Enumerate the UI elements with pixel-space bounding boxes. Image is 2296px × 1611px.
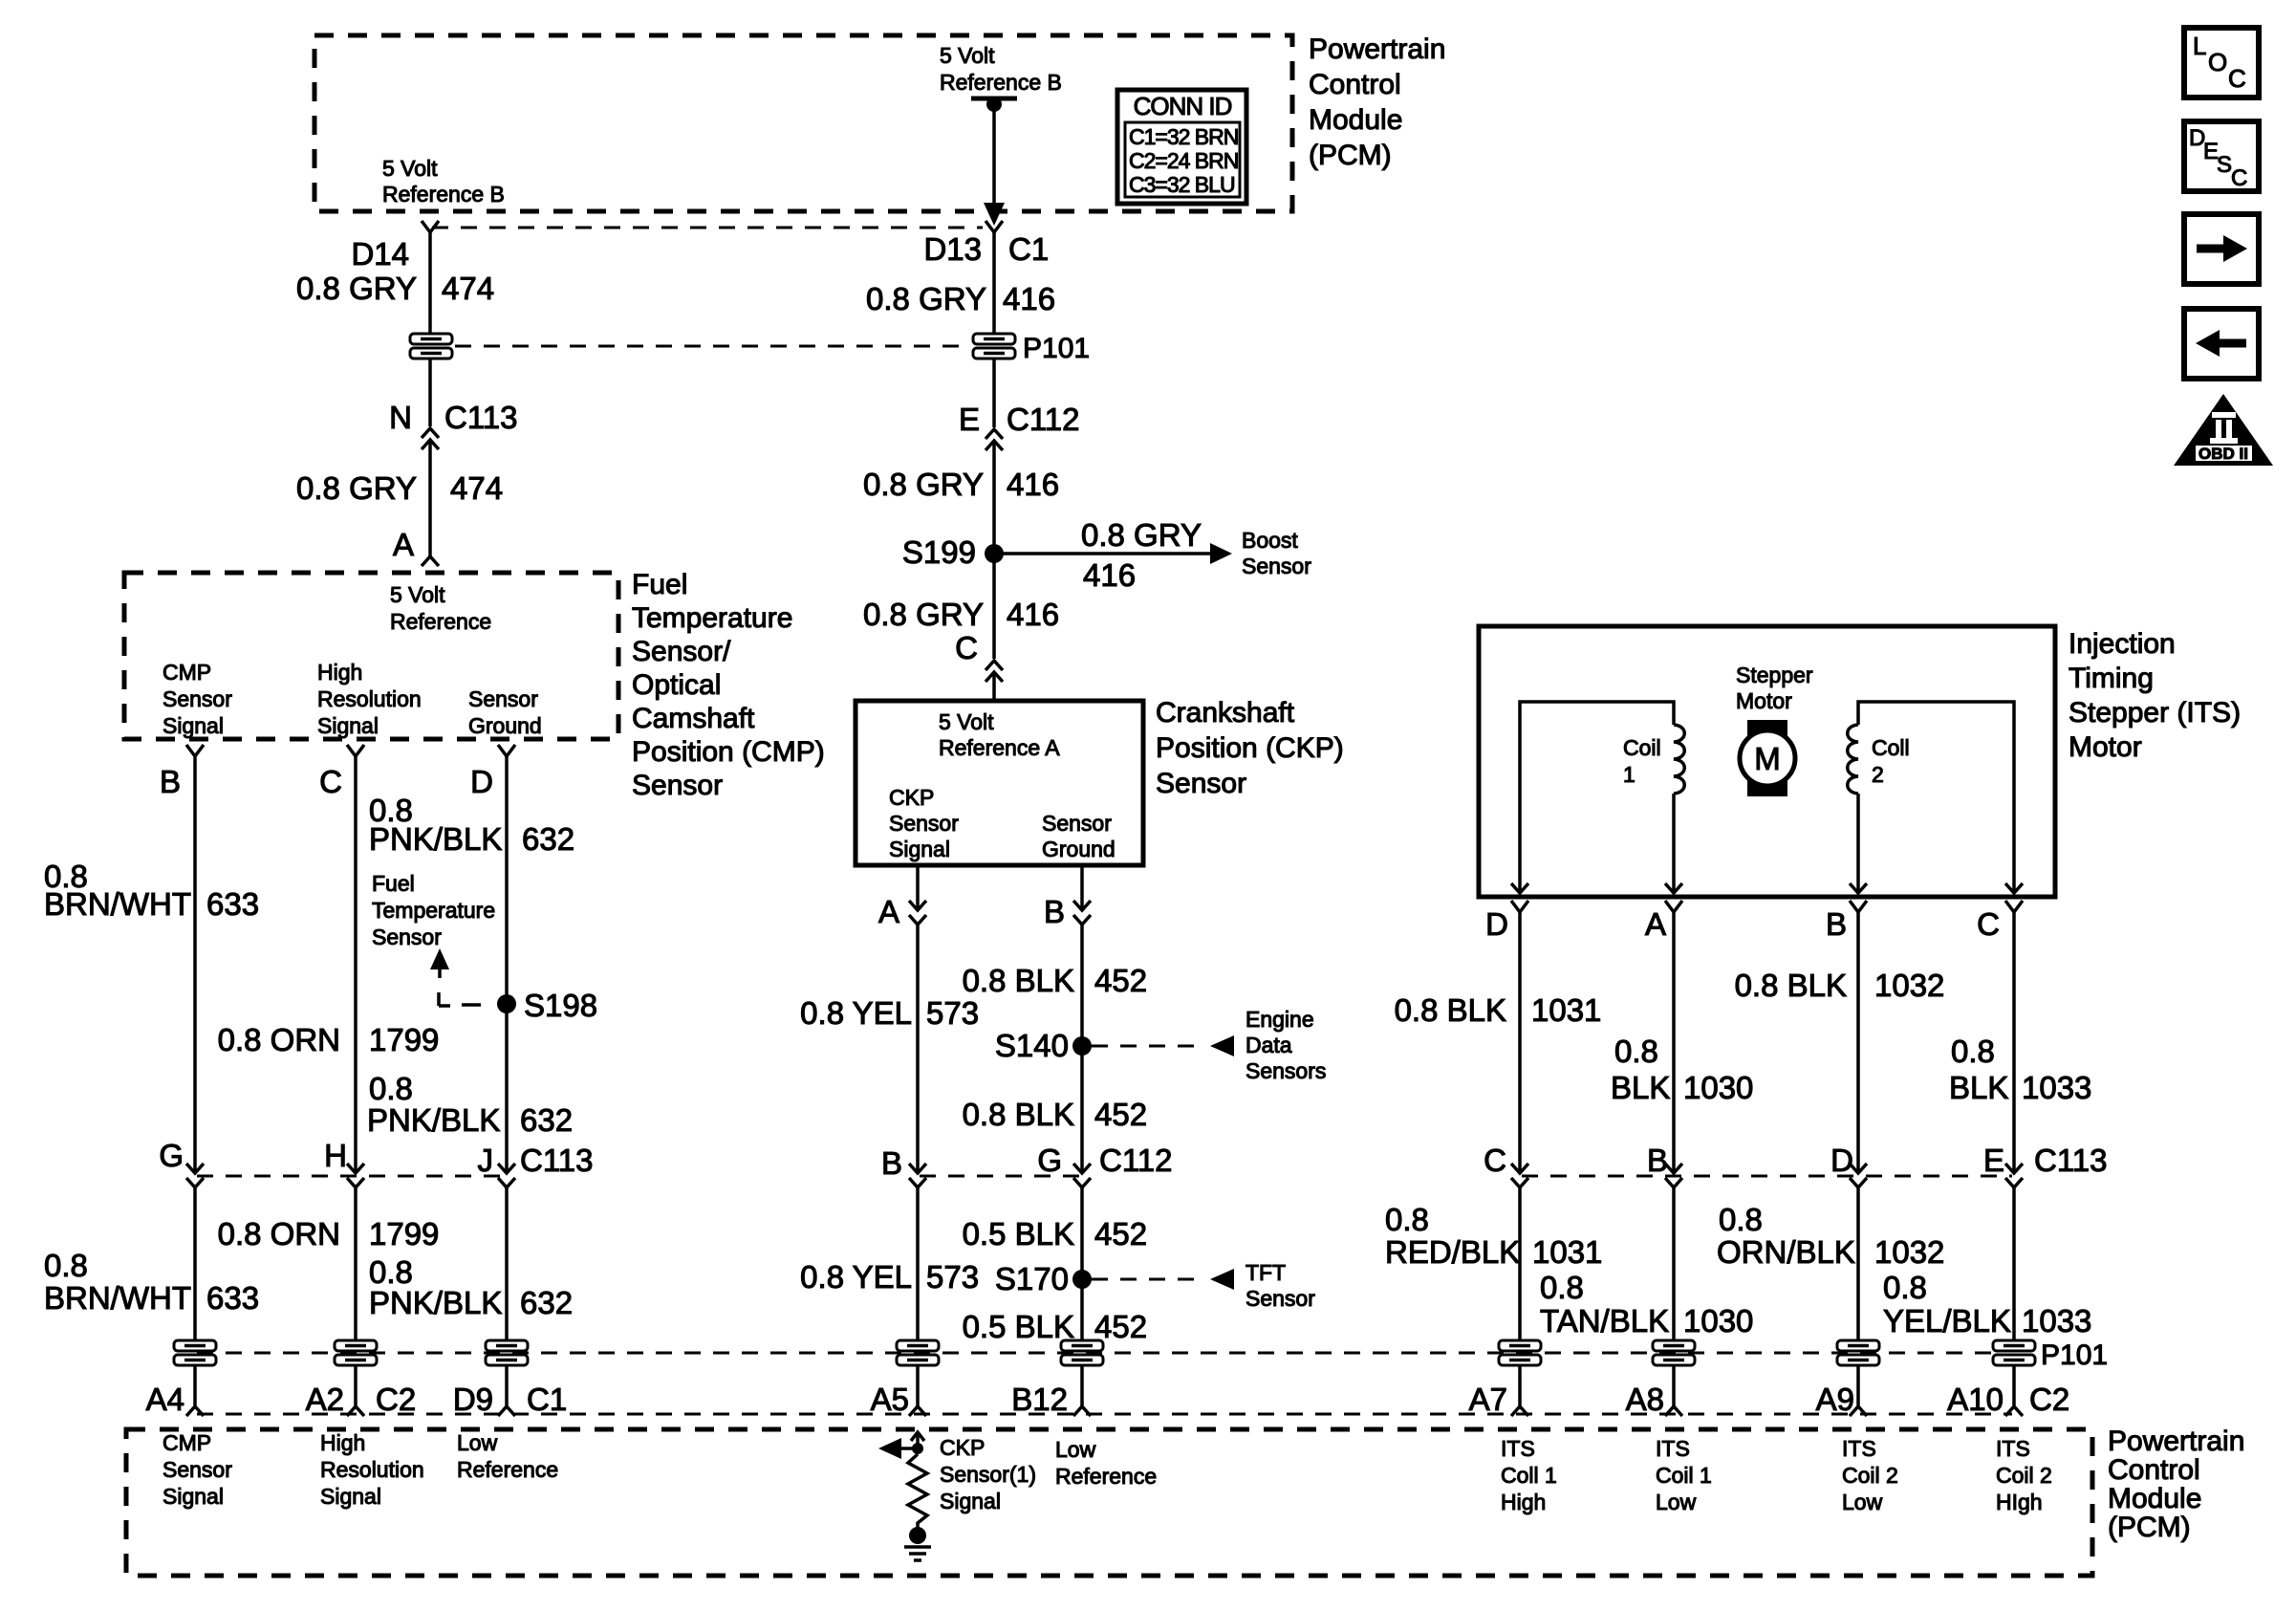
svg-text:0.8 ORN: 0.8 ORN bbox=[218, 1216, 340, 1252]
svg-text:Sensor: Sensor bbox=[468, 686, 538, 711]
label: J | C113 bbox=[478, 1143, 594, 1178]
node: CMP pin B fork bbox=[186, 745, 204, 756]
svg-text:5 Volt: 5 Volt bbox=[390, 582, 445, 607]
label: 0.8 BLK | 1030 bbox=[1611, 1034, 1753, 1105]
svg-text:C: C bbox=[2231, 165, 2247, 191]
svg-text:CONN ID: CONN ID bbox=[1134, 92, 1232, 120]
label: Coil 1 bbox=[1623, 735, 1661, 787]
svg-text:B: B bbox=[1647, 1143, 1668, 1178]
svg-text:Sensor: Sensor bbox=[889, 811, 959, 836]
wire: 0.8 GRY 474 from D14 to P101 bbox=[428, 232, 432, 335]
svg-text:G: G bbox=[1037, 1143, 1062, 1178]
icon: left arrow box bbox=[2184, 309, 2259, 379]
label: S140 bbox=[995, 1028, 1069, 1063]
svg-text:5 Volt: 5 Volt bbox=[382, 156, 438, 181]
label: P101 (top) bbox=[1023, 333, 1090, 364]
svg-text:RED/BLK: RED/BLK bbox=[1385, 1234, 1520, 1270]
svg-text:Powertrain: Powertrain bbox=[2108, 1426, 2244, 1457]
node: pin A5 fork into PCM bbox=[909, 1406, 926, 1416]
label: S170 bbox=[995, 1261, 1069, 1296]
svg-text:Position (CKP): Position (CKP) bbox=[1156, 732, 1344, 764]
svg-text:CKP: CKP bbox=[889, 785, 934, 810]
connector P101 pass-through on BRN/WHT 633 bbox=[172, 1339, 218, 1366]
svg-text:Fuel: Fuel bbox=[632, 569, 687, 600]
label: A2 | C2 bbox=[306, 1382, 417, 1417]
label: A5 bbox=[871, 1382, 909, 1417]
svg-text:0.8 BLK: 0.8 BLK bbox=[963, 963, 1074, 998]
svg-text:D13: D13 bbox=[923, 231, 982, 267]
svg-text:Sensor(1): Sensor(1) bbox=[940, 1462, 1036, 1487]
wire: thin dashed line at C113 row (right group) bbox=[1522, 1175, 2012, 1178]
svg-text:0.8 YEL: 0.8 YEL bbox=[800, 995, 912, 1031]
label: 0.8 GRY (boost branch) bbox=[1081, 517, 1202, 553]
svg-text:Module: Module bbox=[1309, 104, 1402, 136]
svg-text:J: J bbox=[478, 1143, 494, 1178]
node: pin A2 fork into PCM bbox=[347, 1406, 364, 1416]
svg-text:C3=32 BLU: C3=32 BLU bbox=[1129, 172, 1235, 197]
svg-text:0.8 GRY: 0.8 GRY bbox=[296, 271, 417, 306]
label: ITS Coil 1 High (PCM pin A7) bbox=[1501, 1436, 1557, 1514]
svg-text:Motor: Motor bbox=[1736, 688, 1792, 713]
svg-text:M: M bbox=[1754, 741, 1781, 776]
connector P101 pass-through on ORN 1799 bbox=[333, 1339, 379, 1366]
svg-text:1799: 1799 bbox=[369, 1216, 439, 1252]
svg-text:D9: D9 bbox=[453, 1382, 493, 1417]
svg-text:1033: 1033 bbox=[2022, 1070, 2091, 1105]
svg-text:Low: Low bbox=[1055, 1437, 1096, 1462]
svg-text:0.8 YEL: 0.8 YEL bbox=[800, 1259, 912, 1295]
wire: GRY 416 from P101 to C112 pin E bbox=[992, 358, 996, 427]
wire: dashed stub from fuel temp sensor to S198 bbox=[439, 992, 481, 1006]
label: CMP Sensor Signal (PCM pin A4) bbox=[162, 1430, 232, 1509]
svg-text:C112: C112 bbox=[1099, 1143, 1172, 1178]
svg-text:Boost: Boost bbox=[1242, 528, 1298, 553]
svg-text:S198: S198 bbox=[524, 988, 597, 1023]
svg-text:A: A bbox=[878, 894, 899, 929]
svg-text:C: C bbox=[955, 630, 978, 665]
node: in-line chevrons above CKP sensor bbox=[986, 661, 1003, 682]
svg-text:0.8: 0.8 bbox=[1614, 1034, 1658, 1069]
wire: 0.8 PNK/BLK 632 from S198 to C113 J bbox=[505, 1004, 509, 1173]
ITS motor box (Injection Timing Stepper) bbox=[1479, 626, 2055, 897]
svg-text:BRN/WHT: BRN/WHT bbox=[44, 1280, 191, 1316]
svg-text:Sensor: Sensor bbox=[632, 770, 723, 801]
svg-text:Coil 2: Coil 2 bbox=[1842, 1463, 1898, 1488]
node: in-line connector C113-N chevrons bbox=[422, 428, 439, 449]
node: splice S170 bbox=[1072, 1270, 1092, 1289]
wire: 0.8 BRN/WHT 633 from CMP B to C113 G bbox=[193, 756, 197, 1173]
wire: 0.8 BLK 452 from CKP B to splice S140 bbox=[1080, 925, 1084, 1046]
svg-text:Sensor: Sensor bbox=[162, 1457, 232, 1482]
CMP / Fuel Temperature sensor dashed box bbox=[124, 573, 618, 739]
node: pin A7 fork into PCM bbox=[1511, 1406, 1528, 1416]
svg-text:632: 632 bbox=[520, 1285, 573, 1320]
wire: 0.8 ORN 1799 from CMP C to C113 H bbox=[354, 756, 357, 1173]
label: CKP Sensor(1) Signal (PCM pin A5) bbox=[940, 1435, 1036, 1513]
svg-text:Low: Low bbox=[457, 1430, 498, 1455]
svg-text:C: C bbox=[319, 764, 342, 799]
svg-text:A: A bbox=[393, 527, 414, 562]
svg-text:0.8 ORN: 0.8 ORN bbox=[218, 1022, 340, 1057]
svg-text:C1: C1 bbox=[1008, 231, 1049, 267]
svg-text:Timing: Timing bbox=[2069, 663, 2154, 694]
svg-text:ITS: ITS bbox=[1996, 1436, 2030, 1461]
label: E | C113 bbox=[1983, 1143, 2107, 1178]
svg-text:Coll: Coll bbox=[1872, 735, 1910, 760]
label: TFT Sensor bbox=[1245, 1260, 1315, 1311]
label: D13 | C1 bbox=[923, 231, 1049, 267]
svg-text:N: N bbox=[389, 400, 412, 435]
label: Boost Sensor bbox=[1242, 528, 1311, 578]
svg-text:ORN/BLK: ORN/BLK bbox=[1717, 1234, 1855, 1270]
wire: thin dashed line at C113 row (left group) bbox=[197, 1175, 505, 1178]
svg-text:452: 452 bbox=[1094, 1309, 1147, 1344]
svg-text:(PCM): (PCM) bbox=[2108, 1512, 2191, 1543]
wire: thin dashed line between P101 connectors bbox=[455, 345, 969, 348]
node: in-line connector C112-E chevrons bbox=[986, 429, 1003, 450]
svg-text:Reference: Reference bbox=[1055, 1464, 1157, 1489]
label: 0.8 GRY | 474 (upper) bbox=[296, 271, 494, 306]
node: ITS pin D fork bbox=[1511, 901, 1528, 912]
svg-text:Coll 1: Coll 1 bbox=[1501, 1463, 1557, 1488]
label: CKP Sensor Signal (inside CKP box) bbox=[889, 785, 959, 861]
label: pin C bbox=[319, 764, 342, 799]
node: fuel temp sensor arrow (points up) bbox=[430, 948, 449, 978]
svg-text:632: 632 bbox=[522, 821, 574, 857]
label: 0.8 GRY | 416 (above S199) bbox=[863, 467, 1059, 502]
label: pin C of CKP sensor bbox=[955, 630, 978, 665]
node: in-line connector C113-E arrow and fork bbox=[2005, 1164, 2023, 1187]
label: Fuel Temperature Sensor / Optical Camshaft Position (CMP) Sensor bbox=[632, 569, 825, 801]
svg-text:1031: 1031 bbox=[1532, 1234, 1602, 1270]
CKP sensor box (Crankshaft Position) bbox=[856, 701, 1143, 865]
svg-text:C2: C2 bbox=[2029, 1382, 2069, 1417]
svg-text:Coil: Coil bbox=[1623, 735, 1661, 760]
svg-text:Ground: Ground bbox=[1042, 837, 1116, 861]
svg-text:Signal: Signal bbox=[889, 837, 950, 861]
label: pin A of CKP bbox=[878, 894, 899, 929]
label: pin B of ITS bbox=[1826, 906, 1847, 942]
label: pin C of ITS bbox=[1977, 906, 2000, 942]
svg-text:Ground: Ground bbox=[468, 713, 542, 738]
node: pin A fork into CMP sensor box bbox=[422, 556, 439, 566]
label: A4 bbox=[146, 1382, 184, 1417]
svg-text:474: 474 bbox=[442, 271, 494, 306]
svg-text:1033: 1033 bbox=[2022, 1303, 2091, 1339]
wire: thin dashed line at C112 row (middle group) bbox=[920, 1175, 1090, 1178]
label: S198 bbox=[524, 988, 597, 1023]
svg-text:Control: Control bbox=[1309, 69, 1401, 100]
coil 1 winding loop bbox=[1511, 702, 1684, 893]
label: pin B of CKP bbox=[1044, 894, 1065, 929]
svg-text:HIgh: HIgh bbox=[1996, 1490, 2043, 1514]
node: pin D9 fork into PCM bbox=[498, 1406, 515, 1416]
svg-text:Data: Data bbox=[1245, 1033, 1292, 1057]
wire: TAN/BLK 1030 from P101 to PCM A8 bbox=[1672, 1364, 1676, 1406]
node: ITS pin A fork bbox=[1665, 901, 1682, 912]
wire: 0.8 BLK 1033 from ITS C to C113 E bbox=[2012, 912, 2016, 1173]
svg-text:C112: C112 bbox=[1007, 402, 1079, 437]
node: CKP signal arrow up inside PCM bbox=[911, 1432, 924, 1448]
ground: CKP signal ground dot and symbol bbox=[904, 1527, 931, 1560]
svg-text:1: 1 bbox=[1623, 762, 1635, 787]
svg-text:416: 416 bbox=[1007, 467, 1059, 502]
wire: GRY 474 from P101 to C113 pin N bbox=[428, 358, 432, 426]
node: pin B12 fork into PCM bbox=[1073, 1406, 1091, 1416]
node: pin A9 fork into PCM bbox=[1850, 1406, 1867, 1416]
connector P101 pass-through on BLK 452 bbox=[1059, 1339, 1105, 1366]
svg-text:633: 633 bbox=[206, 1280, 259, 1316]
label: 0.8 ORN/BLK | 1032 bbox=[1717, 1202, 1944, 1270]
svg-text:Signal: Signal bbox=[162, 713, 224, 738]
svg-text:Sensor: Sensor bbox=[1245, 1286, 1315, 1311]
label: 0.8 YEL | 573 (upper) bbox=[800, 995, 979, 1031]
svg-text:0.8: 0.8 bbox=[1540, 1270, 1584, 1305]
svg-text:Sensors: Sensors bbox=[1245, 1058, 1326, 1083]
label: High Resolution Signal (inside CMP box) bbox=[317, 660, 422, 738]
svg-text:(PCM): (PCM) bbox=[1309, 140, 1392, 171]
node: ITS pin C fork bbox=[2005, 901, 2023, 912]
wire: 0.8 BLK 1031 from ITS D to C113 C bbox=[1518, 912, 1522, 1173]
svg-text:BLK: BLK bbox=[1949, 1070, 2008, 1105]
label: E | C112 bbox=[959, 402, 1079, 437]
connector P101 pass-through on RED/BLK 1031 bbox=[1497, 1339, 1543, 1366]
label: pin B at C113 bbox=[1647, 1143, 1668, 1178]
svg-text:Position (CMP): Position (CMP) bbox=[632, 736, 825, 768]
node: in-line connector C112-B arrow and fork bbox=[909, 1164, 926, 1187]
svg-text:Injection: Injection bbox=[2069, 628, 2176, 660]
svg-text:BLK: BLK bbox=[1611, 1070, 1670, 1105]
svg-text:Fuel: Fuel bbox=[372, 871, 415, 896]
label: S199 bbox=[902, 534, 976, 570]
svg-text:Stepper (ITS): Stepper (ITS) bbox=[2069, 697, 2241, 729]
svg-text:C: C bbox=[1977, 906, 2000, 942]
label: Powertrain Control Module (PCM) bottom bbox=[2108, 1426, 2244, 1543]
svg-text:573: 573 bbox=[926, 995, 979, 1031]
node: in-line connector C113-G arrow and fork bbox=[186, 1164, 204, 1187]
wire: thin dashed PCM connector face line (bottom pin row) bbox=[197, 1413, 2012, 1416]
label: D9 | C1 bbox=[453, 1382, 567, 1417]
wire: 0.8 BLK 1032 from ITS B to C113 D bbox=[1856, 912, 1860, 1173]
svg-text:Crankshaft: Crankshaft bbox=[1156, 697, 1295, 729]
wire: YEL/BLK 1033 from P101 to PCM A10 bbox=[2012, 1364, 2016, 1406]
svg-text:474: 474 bbox=[450, 470, 503, 506]
svg-text:0.8: 0.8 bbox=[1883, 1270, 1927, 1305]
label: pin B bbox=[160, 764, 181, 799]
label: 5 Volt Reference A (inside CKP box) bbox=[939, 709, 1060, 760]
label: pin D bbox=[470, 764, 493, 799]
svg-text:Camshaft: Camshaft bbox=[632, 703, 755, 734]
wire: PNK/BLK 632 from P101 to PCM D9 bbox=[505, 1364, 509, 1406]
svg-text:Signal: Signal bbox=[317, 713, 379, 738]
node: junction dot on CKP signal branch bbox=[912, 1443, 923, 1454]
svg-text:High: High bbox=[320, 1430, 365, 1455]
label: B12 bbox=[1011, 1382, 1068, 1417]
wire: 0.8 ORN 1799 from C113 H to P101 bbox=[354, 1187, 357, 1341]
node: in-line connector C113-C arrow and fork bbox=[1511, 1164, 1528, 1187]
svg-text:P101: P101 bbox=[1023, 333, 1090, 364]
icon: DESC box bbox=[2184, 121, 2259, 191]
svg-text:O: O bbox=[2208, 48, 2227, 76]
svg-text:632: 632 bbox=[520, 1102, 573, 1138]
label: 0.8 PNK/BLK | 632 (lower) bbox=[369, 1254, 573, 1320]
label: pin H bbox=[324, 1138, 347, 1173]
svg-text:1031: 1031 bbox=[1531, 992, 1601, 1028]
svg-text:0.8 GRY: 0.8 GRY bbox=[863, 597, 984, 632]
wire: BRN/WHT 633 from P101 to PCM A4 bbox=[193, 1364, 197, 1406]
svg-text:416: 416 bbox=[1003, 281, 1055, 316]
wire: 0.8 ORN/BLK 1032 from C113 D to P101 bbox=[1856, 1187, 1860, 1341]
wire: 0.8 GRY 416 from S199 to CKP pin C bbox=[992, 554, 996, 659]
wire: dashed branch from S170 to TFT Sensor bbox=[1092, 1269, 1234, 1290]
wire: 0.8 GRY 416 branch to Boost Sensor with arrow bbox=[994, 543, 1232, 564]
label: Engine Data Sensors bbox=[1245, 1007, 1326, 1083]
svg-text:Optical: Optical bbox=[632, 669, 721, 701]
svg-text:Sensor/: Sensor/ bbox=[632, 636, 731, 667]
svg-text:C2: C2 bbox=[376, 1382, 416, 1417]
svg-text:5 Volt: 5 Volt bbox=[940, 43, 995, 68]
svg-text:C1=32 BRN: C1=32 BRN bbox=[1129, 124, 1238, 149]
svg-text:Engine: Engine bbox=[1245, 1007, 1314, 1032]
label: 0.8 YEL/BLK | 1033 bbox=[1883, 1270, 2091, 1339]
svg-text:416: 416 bbox=[1083, 557, 1136, 593]
node: CMP pin D fork bbox=[498, 745, 515, 756]
wire: RED/BLK 1031 from P101 to PCM A7 bbox=[1518, 1364, 1522, 1406]
svg-text:1030: 1030 bbox=[1683, 1070, 1753, 1105]
wire: 0.8 TAN/BLK 1030 from C113 B to P101 bbox=[1672, 1187, 1676, 1341]
svg-text:B: B bbox=[1044, 894, 1065, 929]
svg-text:Reference B: Reference B bbox=[940, 70, 1062, 95]
label: Sensor Ground (inside CMP box) bbox=[468, 686, 542, 738]
svg-text:A8: A8 bbox=[1626, 1382, 1664, 1417]
icon: LOC box bbox=[2184, 28, 2259, 98]
svg-text:A10: A10 bbox=[1947, 1382, 2004, 1417]
svg-text:A5: A5 bbox=[871, 1382, 909, 1417]
svg-text:D: D bbox=[470, 764, 493, 799]
svg-text:S199: S199 bbox=[902, 534, 976, 570]
label: pin A of CMP sensor bbox=[393, 527, 414, 562]
svg-text:Motor: Motor bbox=[2069, 731, 2142, 763]
svg-text:5 Volt: 5 Volt bbox=[939, 709, 994, 734]
node: pin D14 fork at PCM C1 connector bbox=[422, 221, 439, 232]
svg-text:G: G bbox=[159, 1138, 184, 1173]
connector P101 pass-through on GRY 474 bbox=[408, 333, 454, 359]
wire: 0.8 GRY 474 from C113 to CMP sensor pin A bbox=[428, 440, 432, 556]
svg-text:L: L bbox=[2193, 32, 2206, 60]
label: pin G bbox=[159, 1138, 184, 1173]
label: 0.8 BLK | 1032 bbox=[1735, 968, 1945, 1003]
wire: 0.8 GRY 416 from C112 to splice S199 bbox=[992, 441, 996, 554]
svg-text:B: B bbox=[1826, 906, 1847, 942]
node: pin D13 fork at PCM C1 connector bbox=[986, 221, 1003, 232]
node: ITS pin B fork bbox=[1850, 901, 1867, 912]
svg-text:0.8: 0.8 bbox=[369, 1071, 413, 1106]
svg-text:0.8 GRY: 0.8 GRY bbox=[866, 281, 986, 316]
svg-text:0.5 BLK: 0.5 BLK bbox=[963, 1309, 1074, 1344]
svg-text:Resolution: Resolution bbox=[317, 686, 422, 711]
connector P101 pass-through on TAN/BLK 1030 bbox=[1651, 1339, 1697, 1366]
label: 0.8 TAN/BLK | 1030 bbox=[1540, 1270, 1753, 1339]
label: 0.8 PNK/BLK | 632 (top) bbox=[369, 793, 574, 857]
svg-text:ITS: ITS bbox=[1656, 1436, 1690, 1461]
label: 5 Volt Reference B (left, inside top PCM box) bbox=[382, 156, 505, 207]
wire: CKP pin A stub with connector arrows bbox=[909, 865, 926, 925]
node: pin A8 fork into PCM bbox=[1665, 1406, 1682, 1416]
label: Coll 2 bbox=[1872, 735, 1910, 787]
wire: 0.8 BRN/WHT 633 from C113 G to P101 bbox=[193, 1187, 197, 1341]
svg-text:Low: Low bbox=[1656, 1490, 1697, 1514]
svg-text:C2=24 BRN: C2=24 BRN bbox=[1129, 148, 1238, 173]
label: Sensor Ground (inside CKP box) bbox=[1042, 811, 1116, 861]
label: 0.5 BLK | 452 (above S170) bbox=[963, 1216, 1147, 1252]
svg-text:0.8: 0.8 bbox=[1951, 1034, 1995, 1069]
label: A10 | C2 bbox=[1947, 1382, 2069, 1417]
label: A7 bbox=[1469, 1382, 1507, 1417]
node: pin A4 fork into PCM bbox=[186, 1406, 204, 1416]
label: 0.8 GRY | 416 (above P101) bbox=[866, 281, 1055, 316]
wire: branch left with arrow inside PCM bbox=[878, 1438, 918, 1459]
svg-text:Sensor: Sensor bbox=[1156, 768, 1246, 799]
wire: 0.8 YEL 573 from C112 B to P101 bbox=[916, 1187, 920, 1341]
connector P101 pass-through on GRY 416 bbox=[971, 333, 1017, 359]
label: P101 (bottom) bbox=[2041, 1339, 2108, 1371]
wire: ORN 1799 from P101 to PCM A2 bbox=[354, 1364, 357, 1406]
svg-text:B12: B12 bbox=[1011, 1382, 1068, 1417]
svg-text:Reference B: Reference B bbox=[382, 182, 505, 207]
wire: 0.8 GRY 416 from D13 to P101 bbox=[992, 232, 996, 335]
label: ITS Coil 2 High (PCM pin A10) bbox=[1996, 1436, 2052, 1514]
svg-text:YEL/BLK: YEL/BLK bbox=[1883, 1303, 2011, 1339]
svg-text:573: 573 bbox=[926, 1259, 979, 1295]
svg-text:633: 633 bbox=[206, 886, 259, 922]
wire: 5V ref B drop inside top PCM box with arrow bbox=[984, 106, 1005, 226]
label: pin D of ITS bbox=[1485, 906, 1508, 942]
svg-text:Reference A: Reference A bbox=[939, 735, 1060, 760]
wire: dashed branch from S140 to Engine Data Sensors bbox=[1092, 1035, 1234, 1056]
svg-text:D: D bbox=[1485, 906, 1508, 942]
svg-text:Sensor: Sensor bbox=[372, 925, 442, 949]
svg-text:A: A bbox=[1645, 906, 1666, 942]
svg-text:C: C bbox=[1484, 1143, 1506, 1178]
svg-text:ITS: ITS bbox=[1501, 1436, 1535, 1461]
wire: YEL 573 from P101 to PCM A5 bbox=[916, 1364, 920, 1406]
node: splice S140 bbox=[1072, 1036, 1092, 1056]
svg-text:Low: Low bbox=[1842, 1490, 1883, 1514]
svg-text:A2: A2 bbox=[306, 1382, 344, 1417]
svg-text:P101: P101 bbox=[2041, 1339, 2108, 1371]
svg-text:Signal: Signal bbox=[320, 1484, 381, 1509]
svg-text:0.8 BLK: 0.8 BLK bbox=[963, 1097, 1074, 1132]
svg-text:Signal: Signal bbox=[940, 1489, 1001, 1513]
svg-text:0.8 GRY: 0.8 GRY bbox=[296, 470, 417, 506]
label: Low Reference (PCM pin B12) bbox=[1055, 1437, 1157, 1489]
node: in-line connector C113-B arrow and fork bbox=[1665, 1164, 1682, 1187]
label: Fuel Temperature Sensor note bbox=[372, 871, 495, 949]
svg-text:0.8 BLK: 0.8 BLK bbox=[1735, 968, 1847, 1003]
label: CMP Sensor Signal (inside CMP box) bbox=[162, 660, 232, 738]
label: pin B at C112 bbox=[881, 1145, 902, 1181]
svg-text:S170: S170 bbox=[995, 1261, 1069, 1296]
node: splice S199 bbox=[985, 544, 1004, 563]
svg-text:BRN/WHT: BRN/WHT bbox=[44, 886, 191, 922]
label: 0.8 BLK | 1033 bbox=[1949, 1034, 2091, 1105]
label: 5 Volt Reference B (center, inside top PCM box) bbox=[940, 43, 1062, 95]
svg-text:D: D bbox=[1830, 1143, 1853, 1178]
PCM bottom box (Powertrain Control Module) bbox=[126, 1429, 2092, 1576]
svg-text:C: C bbox=[2228, 64, 2246, 93]
node: in-line connector C113-J arrow and fork bbox=[498, 1164, 515, 1187]
svg-text:A9: A9 bbox=[1816, 1382, 1854, 1417]
